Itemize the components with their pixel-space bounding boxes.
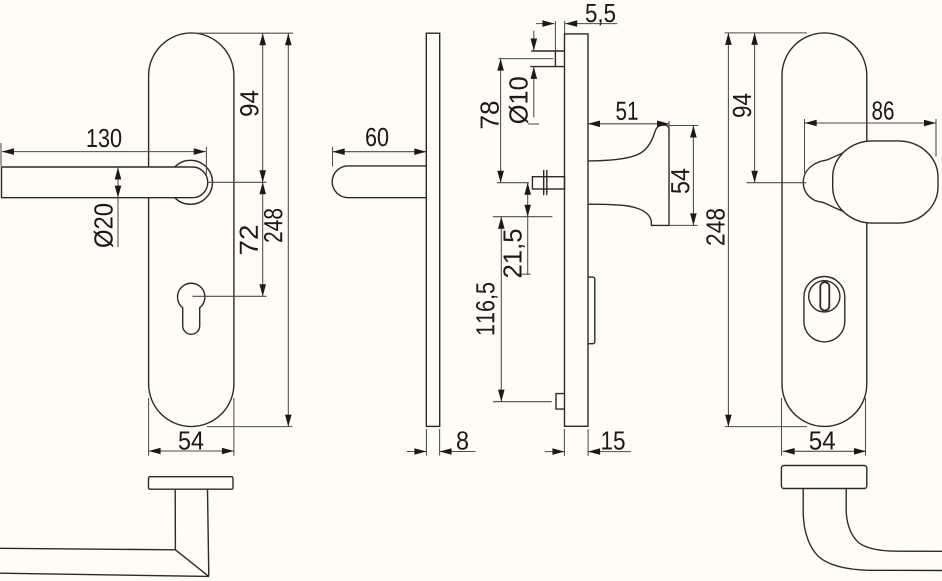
dim 15 plate thickness v3 (563, 429, 565, 456)
extension line plate top v4 (725, 32, 808, 34)
extension line plate top (190, 32, 293, 34)
detail right lever inner edge (846, 489, 942, 552)
view3 bottom screw boss (556, 394, 565, 410)
extension line top screw axis (498, 58, 553, 60)
view3 cylinder cover bump (588, 277, 595, 344)
dim 5,5 screw standoff (554, 21, 556, 51)
dim 248 plate height v4 (727, 33, 729, 427)
dim 54 plate width (148, 398, 150, 456)
view1 backplate outline (149, 33, 234, 427)
view1 lever handle bar (2, 167, 208, 198)
view4 backplate outline (782, 33, 867, 426)
view4 cylinder security rosette (804, 277, 845, 342)
dim 54 knob height (669, 125, 699, 127)
detail left neck right edge (208, 489, 209, 576)
view2 plate side outline (426, 33, 439, 426)
extension line handle axis (208, 181, 266, 183)
dim 116,5 cylinder to bottom screw (500, 217, 502, 402)
view3 spindle boss (532, 177, 564, 189)
dim 72 handle axis to cylinder (262, 182, 264, 296)
view2 handle side outline (332, 166, 426, 198)
dim 78 screw to spindle (500, 59, 502, 183)
extension line spindle axis v3 (497, 182, 529, 184)
view1 euro profile cylinder hole (178, 283, 205, 334)
dim 21,5 spindle to cylinder (527, 183, 529, 275)
dim 86 knob width (804, 119, 806, 173)
view3 top screw boss (554, 51, 556, 67)
dim Ø10 screw hole (533, 31, 535, 51)
extension line bottom screw axis (493, 401, 552, 403)
detail right lever outer edge (803, 489, 942, 571)
view4 cylinder core circle (809, 281, 840, 312)
dim 94 top to knob axis v4 (754, 33, 756, 183)
extension line cylinder axis (193, 295, 267, 297)
dim 54 plate width v4 (781, 398, 783, 456)
dim 8 plate thickness (425, 429, 427, 456)
extension line knob axis v4 (747, 182, 807, 184)
dim 248 plate height (287, 33, 289, 426)
dim 60 handle projection (332, 147, 334, 167)
extension line cylinder axis v3 (493, 216, 552, 218)
view1 handle bearing circle (169, 160, 213, 204)
dim 94 top to handle axis (262, 33, 264, 182)
dim Ø20 handle diameter (117, 168, 119, 248)
view3 plate side outline (565, 34, 589, 426)
view4 knob neck (803, 147, 857, 216)
detail left elbow diagonal (175, 550, 208, 577)
detail left neck left edge (174, 489, 176, 550)
dim 51 knob projection (668, 121, 670, 127)
view4 cylinder slot (820, 282, 829, 310)
view3 spindle (543, 170, 545, 195)
dim 130 handle length (0, 143, 2, 166)
extension line plate bottom (207, 426, 293, 428)
detail right rosette (781, 466, 866, 489)
view3 knob profile (588, 125, 669, 225)
detail left lever bottom edge (0, 573, 209, 576)
extension line plate bottom v4 (725, 426, 807, 428)
view4 knob face (833, 141, 938, 223)
detail left rosette (149, 477, 234, 490)
detail left lever top edge (0, 548, 175, 550)
